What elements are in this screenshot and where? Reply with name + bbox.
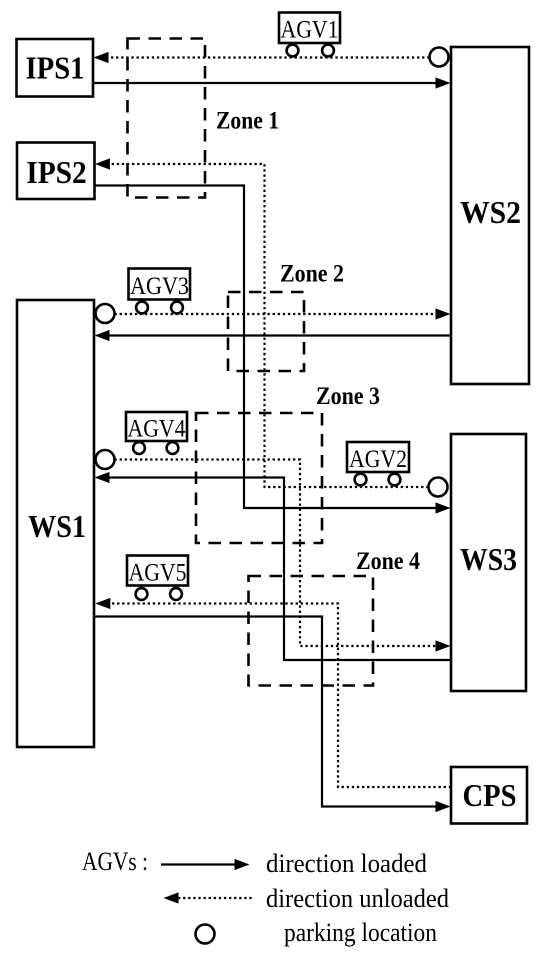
label Zone 1 <box>216 106 279 135</box>
zone rectangle Zone 2 <box>228 292 304 371</box>
station box IPS1 <box>17 39 94 97</box>
legend label parking location <box>284 918 437 947</box>
legend text AGVs <box>82 847 148 876</box>
wire solid loaded WS1 to CPS <box>94 617 451 813</box>
wire dotted unloaded WS1 to WS3 <box>115 460 451 652</box>
legend solid arrow direction loaded <box>161 859 250 870</box>
wire solid loaded IPS1 to WS2 <box>93 77 451 88</box>
svg-text:AGVs :: AGVs : <box>82 847 148 876</box>
svg-text:IPS1: IPS1 <box>26 50 85 86</box>
svg-text:Zone 4: Zone 4 <box>356 546 420 575</box>
svg-text:Zone 3: Zone 3 <box>316 381 380 410</box>
wire dotted unloaded WS2 to IPS1 <box>94 52 430 63</box>
parking circle at WS3 for AGV2 <box>429 478 448 497</box>
AGV cart AGV5 <box>127 556 188 600</box>
station box WS2 <box>451 47 529 384</box>
zone rectangle Zone 4 <box>249 576 374 686</box>
label Zone 4 <box>356 546 420 575</box>
svg-text:CPS: CPS <box>463 777 517 813</box>
station box CPS <box>451 767 527 824</box>
station box WS1 <box>17 300 94 747</box>
svg-text:Zone 1: Zone 1 <box>216 106 279 135</box>
zone rectangle Zone 1 <box>128 39 206 198</box>
svg-text:WS3: WS3 <box>460 541 517 577</box>
parking circle at WS1 for AGV3 <box>96 304 115 323</box>
zone rectangle Zone 3 <box>196 413 322 543</box>
svg-text:Zone 2: Zone 2 <box>280 259 344 288</box>
svg-text:parking location: parking location <box>284 918 437 947</box>
wire dotted unloaded WS1 to WS2 <box>115 308 451 319</box>
svg-text:AGV5: AGV5 <box>129 560 187 587</box>
legend parking circle <box>196 925 215 944</box>
AGV cart AGV4 <box>126 412 187 454</box>
legend label direction loaded <box>266 849 427 878</box>
wire dotted unloaded CPS to WS1 <box>95 598 451 787</box>
AGV cart AGV2 <box>347 442 409 485</box>
svg-text:AGV3: AGV3 <box>130 273 189 300</box>
wire solid loaded WS2 to WS1 <box>95 330 452 341</box>
AGV cart AGV1 <box>279 13 340 57</box>
svg-text:direction loaded: direction loaded <box>266 849 427 878</box>
svg-text:AGV1: AGV1 <box>281 17 339 44</box>
svg-text:direction unloaded: direction unloaded <box>266 884 449 913</box>
svg-text:WS2: WS2 <box>460 194 521 230</box>
parking circle at WS2 for AGV1 <box>430 48 449 67</box>
wire solid loaded IPS2 to WS3 <box>94 186 451 514</box>
AGV cart AGV3 <box>129 269 191 314</box>
label Zone 2 <box>280 259 344 288</box>
svg-text:AGV2: AGV2 <box>349 446 407 473</box>
station box WS3 <box>451 434 526 691</box>
wire solid loaded WS3 to WS1 <box>95 472 452 660</box>
svg-text:WS1: WS1 <box>28 508 86 544</box>
svg-text:AGV4: AGV4 <box>128 416 186 443</box>
legend dotted arrow direction unloaded <box>164 892 255 903</box>
parking circle at WS1 for AGV4 <box>96 450 115 469</box>
station box IPS2 <box>17 143 95 200</box>
label Zone 3 <box>316 381 380 410</box>
wire dotted unloaded WS3 to IPS2 <box>95 158 429 487</box>
svg-text:IPS2: IPS2 <box>26 154 87 190</box>
legend label direction unloaded <box>266 884 449 913</box>
